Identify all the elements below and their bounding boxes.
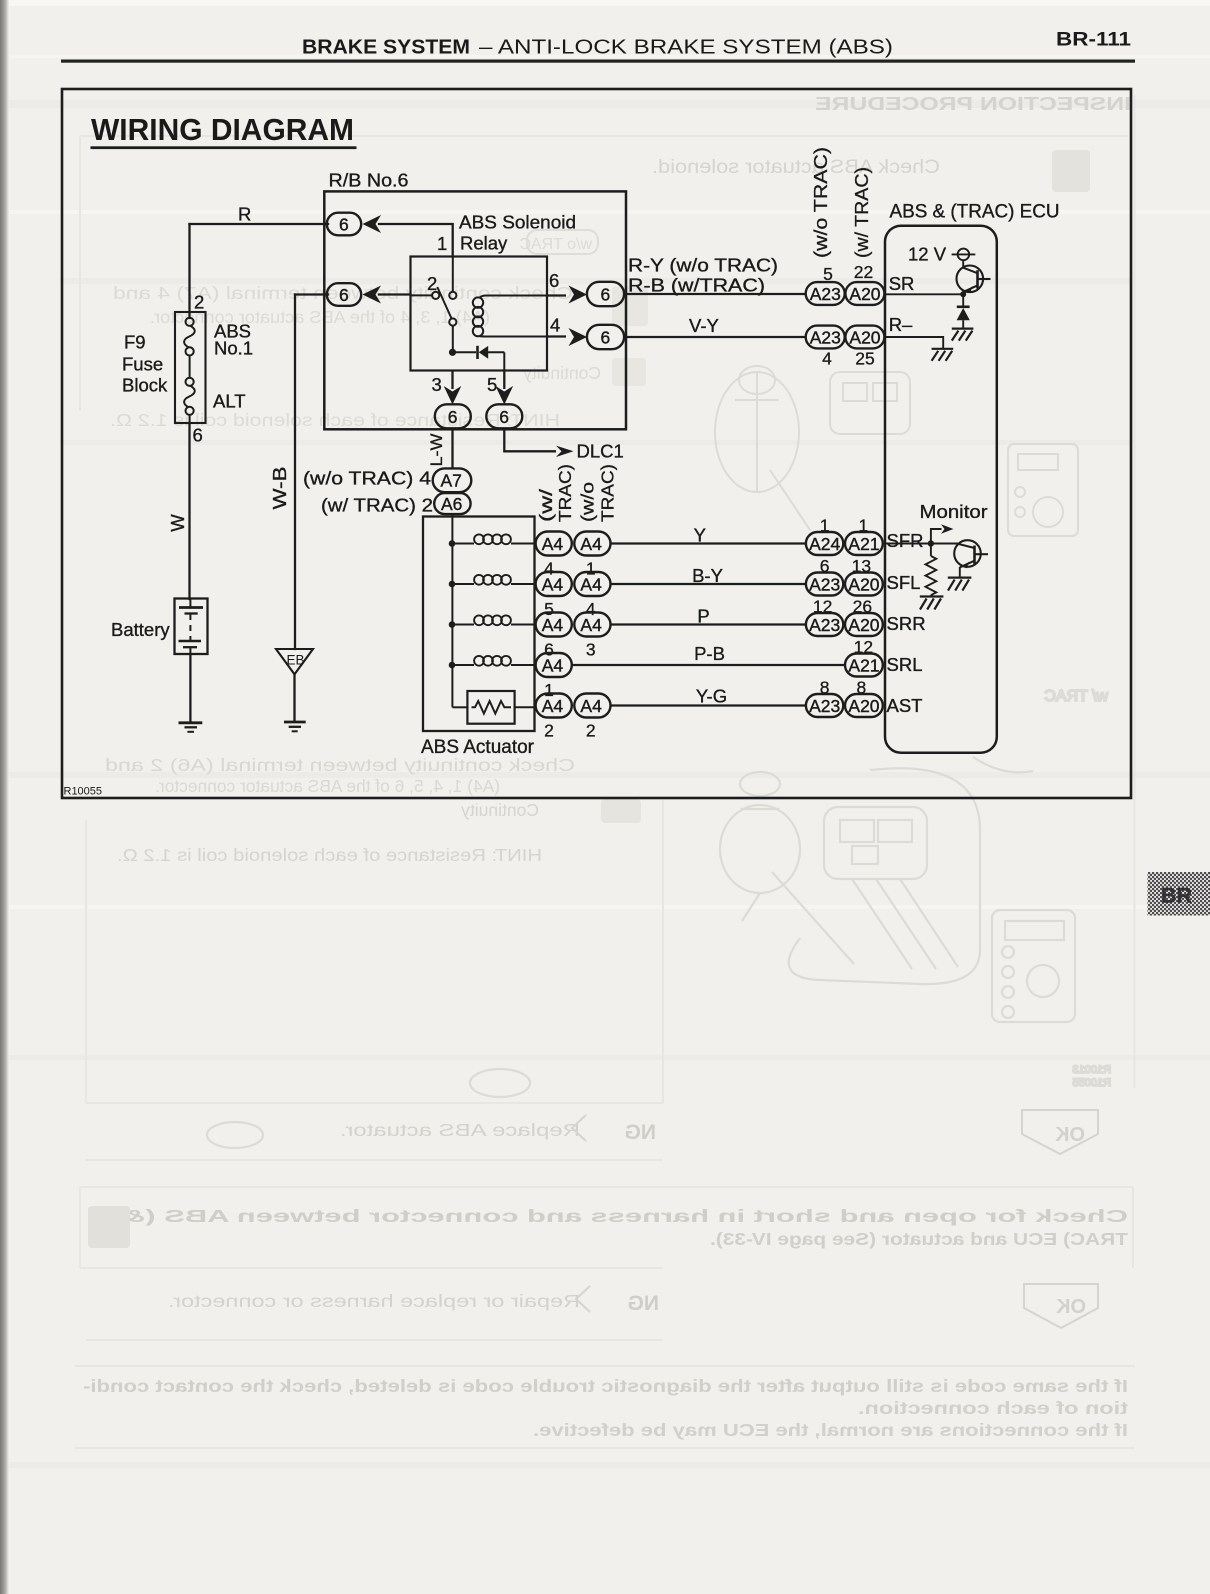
connector oval 6 (pin 6, right) (587, 282, 624, 306)
svg-text:6: 6 (601, 285, 611, 305)
svg-text:A20: A20 (848, 615, 879, 635)
svg-text:EB: EB (287, 653, 305, 668)
wire Y row (611, 542, 807, 544)
connector oval 6 (pin 4, right) (587, 325, 624, 349)
WIRING DIAGRAM heading (91, 113, 357, 149)
arrow right into oval pin4 (569, 328, 588, 346)
wire relay pin5 down (503, 371, 505, 390)
svg-text:NG: NG (628, 1292, 660, 1315)
transistor Q2 (954, 540, 988, 567)
node SFR junction (928, 540, 934, 546)
svg-text:ABS & (TRAC) ECU: ABS & (TRAC) ECU (890, 202, 1060, 223)
svg-text:A23: A23 (809, 615, 840, 635)
svg-text:No.1: No.1 (214, 338, 253, 359)
connector oval 6 (pin 2 / W-B, left) (327, 283, 361, 306)
svg-text:A23: A23 (809, 574, 840, 594)
svg-text:OK: OK (1055, 1296, 1086, 1318)
ground (battery) (179, 723, 203, 732)
diode D2 to ground (957, 294, 970, 328)
relay coil (473, 296, 547, 337)
svg-text:SR: SR (889, 273, 915, 294)
svg-text:6: 6 (549, 270, 559, 291)
ground (EB) (284, 722, 306, 731)
svg-text:SRL: SRL (887, 654, 923, 675)
wire L-W from oval pin3 down to A7 (451, 428, 453, 469)
svg-text:Continuity: Continuity (523, 363, 601, 383)
connector oval A6 (434, 493, 470, 514)
svg-text:B-Y: B-Y (692, 565, 723, 586)
svg-text:1: 1 (437, 233, 447, 254)
svg-text:w/ TRAC: w/ TRAC (1044, 688, 1109, 705)
svg-text:TRAC): TRAC) (555, 464, 575, 522)
svg-text:A4: A4 (542, 655, 564, 675)
connector oval A4 (w/ TRAC) row Y (536, 532, 572, 556)
svg-text:4: 4 (550, 315, 560, 336)
connector oval A21 (SFR) (845, 532, 883, 555)
power symbol (952, 249, 976, 261)
wire SFR to monitor circuit (885, 543, 959, 545)
svg-text:4: 4 (822, 349, 832, 369)
connector oval A20 (SFL) (845, 573, 883, 596)
svg-text:R/B No.6: R/B No.6 (329, 170, 409, 191)
svg-text:Check for open and short in ha: Check for open and short in harness and … (122, 1206, 1128, 1226)
connector oval 6 (pin 5) (486, 404, 522, 428)
relay switch contacts (411, 256, 457, 349)
resistor R2 (monitor pull-down) (926, 544, 937, 597)
coil SFL solenoid (452, 575, 536, 585)
connector oval A4 (w/o TRAC) row P (574, 613, 610, 637)
svg-text:V-Y: V-Y (689, 315, 719, 336)
svg-text:W: W (167, 514, 188, 532)
svg-text:A7: A7 (441, 471, 462, 491)
connector oval A20 (AST) (845, 694, 883, 717)
svg-text:SFL: SFL (887, 572, 921, 593)
svg-text:A4: A4 (542, 696, 564, 716)
actuator bus wire (451, 514, 453, 707)
svg-text:3: 3 (586, 640, 596, 660)
svg-text:P: P (697, 606, 709, 627)
svg-text:– ANTI-LOCK BRAKE SYSTEM (ABS): – ANTI-LOCK BRAKE SYSTEM (ABS) (479, 37, 893, 59)
svg-text:3: 3 (432, 374, 442, 395)
connector oval A23 (SR) (806, 282, 845, 305)
svg-text:A23: A23 (809, 696, 840, 716)
wire R-Y/R-B row (SR) (624, 293, 806, 295)
arrow down into oval pin3 (444, 386, 462, 405)
connector oval A20 (R-) (845, 326, 884, 349)
connector oval A7 (433, 468, 472, 492)
svg-text:BRAKE SYSTEM: BRAKE SYSTEM (302, 37, 470, 59)
svg-text:A21: A21 (848, 655, 879, 675)
wire W-B vertical to EB ground (294, 295, 296, 650)
diagram outer frame (62, 89, 1131, 798)
connector oval A4 (w/ TRAC) row P (536, 613, 572, 637)
svg-text:R: R (238, 204, 251, 225)
svg-text:P-B: P-B (694, 643, 725, 664)
wire R horizontal from fuse column to R/B oval 6 (190, 223, 329, 225)
svg-text:HINT: Resistance of each sol: HINT: Resistance of each solenoid coil i… (117, 845, 542, 865)
svg-text:6: 6 (448, 407, 458, 427)
svg-text:A4: A4 (580, 696, 602, 716)
wire R vertical down to fuse block (188, 224, 190, 318)
relay U1 box (411, 257, 548, 371)
svg-text:R-B (w/TRAC): R-B (w/TRAC) (628, 275, 765, 296)
svg-text:A6: A6 (441, 494, 462, 514)
svg-text:R10013: R10013 (1072, 1064, 1111, 1076)
fuse ALT (184, 356, 195, 424)
connector oval A23 (SFL) (806, 573, 843, 596)
connector oval A23 (SRR) (806, 613, 843, 636)
junction nodes on bus (449, 540, 456, 547)
arrow right into oval pin6 (569, 286, 588, 304)
svg-text:Check continuity between termi: Check continuity between terminal (A6) 2… (105, 755, 575, 775)
arrow down into oval pin5 (496, 386, 514, 405)
battery (175, 599, 208, 655)
svg-text:If the connections are normal,: If the connections are normal, the ECU m… (533, 1420, 1128, 1440)
connector oval A4 (w/ TRAC) row Y-G (536, 694, 572, 718)
ground (below D2) (952, 329, 974, 341)
connector oval A20 (SRR) (845, 613, 883, 636)
svg-text:ABS Actuator: ABS Actuator (421, 737, 535, 758)
wire relay pin3 down (451, 371, 453, 390)
connector oval A23 (AST) (806, 694, 843, 717)
arrow into oval (left) (363, 215, 382, 233)
faint reverse-side illustration (ohmmeter + connector) (207, 757, 1075, 1148)
svg-text:(w/o TRAC) 4: (w/o TRAC) 4 (303, 468, 431, 489)
svg-text:25: 25 (855, 349, 874, 369)
ground (Q2) (948, 578, 972, 591)
connector oval A24 (SFR) (806, 532, 843, 555)
svg-text:If the same code is still outp: If the same code is still output after t… (83, 1376, 1128, 1396)
coil SRL solenoid (452, 656, 536, 666)
svg-text:A4: A4 (580, 615, 602, 635)
svg-text:R–: R– (889, 314, 913, 335)
svg-text:A20: A20 (849, 284, 880, 304)
connector oval 6 (pin 1 feed, top left) (327, 213, 361, 236)
svg-text:Block: Block (122, 375, 168, 396)
svg-text:Replace ABS actuator.: Replace ABS actuator. (340, 1120, 580, 1140)
wire R- pin (885, 337, 944, 349)
svg-text:2: 2 (194, 292, 204, 313)
svg-text:A24: A24 (809, 534, 840, 554)
relay junction node (449, 349, 456, 356)
svg-text:(w/: (w/ (536, 489, 556, 522)
svg-text:6: 6 (339, 215, 349, 235)
svg-text:5: 5 (487, 374, 497, 395)
connector oval A20 (SR) (845, 282, 884, 305)
svg-text:R10055: R10055 (1072, 1077, 1111, 1089)
svg-text:Relay: Relay (460, 233, 508, 254)
resistor R1 in actuator (452, 691, 535, 724)
connector oval 6 (pin 3) (435, 404, 471, 428)
wire EB triangle to ground (293, 675, 295, 721)
svg-text:2: 2 (586, 721, 596, 741)
svg-text:22: 22 (854, 262, 873, 282)
svg-text:Y: Y (694, 525, 706, 546)
BR thumb tab (1148, 872, 1210, 916)
connector oval A4 (w/o TRAC) row Y (574, 532, 610, 556)
svg-text:Continuity: Continuity (461, 800, 539, 820)
svg-text:6: 6 (499, 407, 509, 427)
svg-text:TRAC): TRAC) (598, 464, 618, 522)
svg-text:NG: NG (625, 1121, 657, 1144)
ABS Actuator box (421, 517, 535, 759)
ground (R-) (932, 349, 954, 361)
svg-text:tion of each connection.: tion of each connection. (858, 1398, 1128, 1418)
coil SFR solenoid (452, 534, 536, 544)
wire W-B from oval 6 to down lead (295, 293, 328, 295)
svg-text:A23: A23 (810, 284, 841, 304)
fuse ABS No.1 (184, 318, 195, 356)
svg-text:R-Y (w/o TRAC): R-Y (w/o TRAC) (628, 255, 778, 276)
wire Q2 emitter to ground (959, 567, 961, 578)
arrow to DLC1 (556, 446, 574, 457)
svg-text:Repair or replace harness or c: Repair or replace harness or connector. (168, 1291, 580, 1311)
svg-text:ABS Solenoid: ABS Solenoid (459, 212, 576, 233)
connector oval A4 (w/ TRAC) row B-Y (536, 572, 572, 596)
svg-text:Battery: Battery (111, 619, 170, 640)
wire oval to relay pin 1 (379, 224, 453, 257)
wire battery to ground (189, 654, 191, 722)
svg-text:TRAC) ECU and actuator (See pa: TRAC) ECU and actuator (See page IV-33). (710, 1229, 1128, 1249)
svg-text:w/o TRAC: w/o TRAC (519, 236, 593, 253)
svg-text:R10055: R10055 (64, 786, 103, 798)
node SR junction (960, 291, 966, 297)
connector oval A4 (w/o TRAC) row Y-G (574, 694, 610, 718)
connector oval A4 (w/o TRAC) row B-Y (574, 572, 610, 596)
connector oval A4 (w/ TRAC) row P-B (536, 653, 572, 677)
svg-text:W-B: W-B (269, 467, 290, 510)
svg-text:SRR: SRR (887, 613, 926, 634)
wire SR pin to transistor (885, 293, 964, 295)
svg-text:(w/o TRAC): (w/o TRAC) (811, 147, 831, 258)
svg-text:AST: AST (887, 695, 923, 716)
svg-text:(A4) 1, 4, 5, 6 of the ABS act: (A4) 1, 4, 5, 6 of the ABS actuator conn… (155, 776, 500, 796)
svg-text:(w/ TRAC) 2: (w/ TRAC) 2 (321, 495, 433, 516)
wire relay pin6 to oval (547, 294, 566, 296)
svg-text:6: 6 (339, 285, 349, 305)
wire Y-G row (611, 704, 807, 706)
ground (below R2) (920, 597, 944, 610)
wire P row (611, 623, 807, 625)
wire to DLC1 (504, 428, 556, 451)
svg-text:6: 6 (193, 425, 203, 446)
svg-text:2: 2 (544, 721, 554, 741)
svg-text:6: 6 (601, 328, 611, 348)
wire relay pin4 to oval (547, 335, 566, 337)
wire V-Y row (624, 336, 806, 338)
connector oval A21 (SRL) (845, 654, 883, 677)
monitor arrow (931, 524, 954, 543)
svg-text:L-W: L-W (427, 434, 446, 467)
svg-text:BR-111: BR-111 (1056, 29, 1131, 51)
transistor Q1 (957, 266, 991, 293)
svg-text:A4: A4 (542, 574, 564, 594)
relay diode D1 (453, 346, 505, 371)
wire P-B row (572, 664, 846, 666)
svg-text:A20: A20 (849, 327, 880, 347)
svg-text:A21: A21 (848, 534, 879, 554)
svg-text:(w/ TRAC): (w/ TRAC) (852, 167, 872, 258)
svg-text:A23: A23 (810, 327, 841, 347)
svg-text:ALT: ALT (213, 391, 246, 412)
R/B No.6 junction block (324, 170, 626, 430)
svg-text:SFR: SFR (887, 530, 924, 551)
wire 12V to transistor (962, 260, 964, 268)
svg-text:Fuse: Fuse (122, 354, 163, 375)
fuse block F9 outline (175, 312, 206, 423)
header rule (61, 60, 1135, 63)
svg-text:A4: A4 (542, 615, 564, 635)
svg-text:12 V: 12 V (908, 244, 947, 265)
svg-text:BR: BR (1161, 884, 1193, 908)
page header title (302, 37, 893, 59)
ground point EB (276, 649, 313, 674)
svg-text:A20: A20 (848, 574, 879, 594)
svg-text:A20: A20 (848, 696, 879, 716)
ECU box (885, 226, 997, 753)
wire arrow to relay box pin 2 (379, 293, 411, 295)
svg-text:A4: A4 (542, 534, 564, 554)
svg-text:A4: A4 (580, 574, 602, 594)
arrow into oval (left) (363, 286, 382, 304)
wire fuse block to battery (W) (188, 423, 190, 599)
wire B-Y row (611, 583, 807, 585)
svg-text:Monitor: Monitor (920, 501, 988, 522)
coil SRR solenoid (452, 615, 536, 625)
svg-text:A4: A4 (580, 534, 602, 554)
svg-text:WIRING DIAGRAM: WIRING DIAGRAM (91, 113, 354, 147)
svg-text:Y-G: Y-G (696, 686, 727, 707)
svg-text:F9: F9 (124, 332, 146, 353)
svg-text:(w/o: (w/o (578, 482, 598, 522)
svg-text:DLC1: DLC1 (577, 441, 624, 462)
svg-text:Check ABS actuator solenoid.: Check ABS actuator solenoid. (652, 157, 940, 178)
svg-text:INSPECTION PROCEDURE: INSPECTION PROCEDURE (815, 93, 1131, 114)
connector oval A23 (R-) (806, 326, 845, 349)
